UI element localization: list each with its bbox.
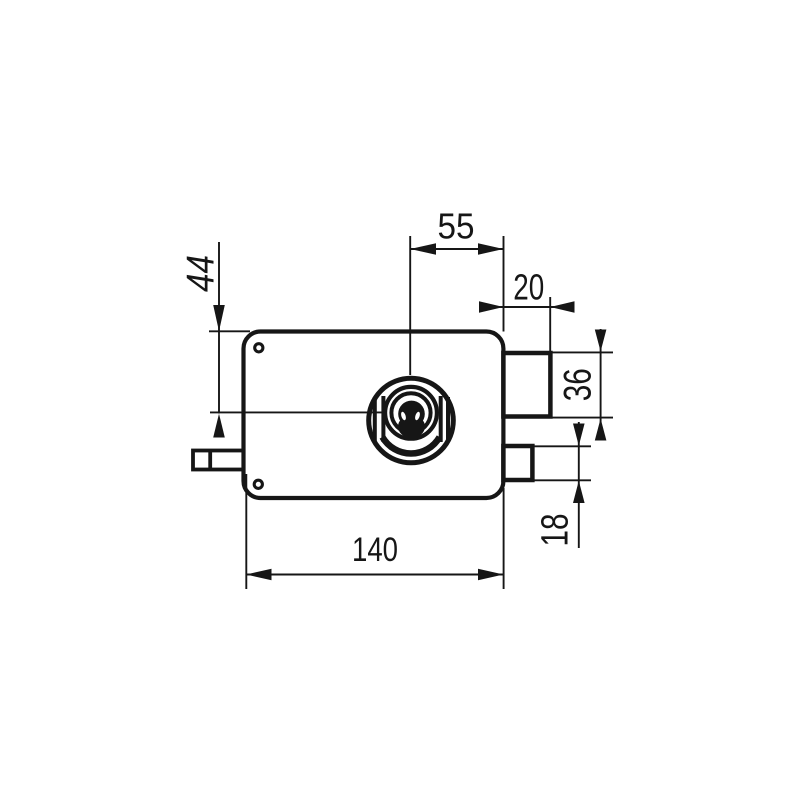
svg-text:18: 18 <box>534 514 576 547</box>
svg-text:140: 140 <box>352 531 398 569</box>
svg-text:20: 20 <box>513 267 544 308</box>
svg-text:44: 44 <box>180 255 223 292</box>
svg-text:36: 36 <box>557 368 600 401</box>
svg-text:55: 55 <box>438 206 475 247</box>
